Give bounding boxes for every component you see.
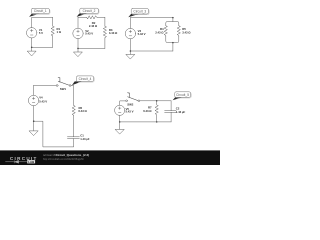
label flag Circuit_5 (173, 92, 192, 100)
wire top rail C4 (34, 84, 57, 86)
ground C3 (126, 51, 135, 59)
node R7 bottom junction (156, 121, 158, 123)
node junction C3 (130, 50, 132, 52)
label flag Circuit_3 (128, 9, 149, 18)
voltage source V2 (73, 28, 83, 38)
wire top rail C5 (140, 100, 171, 102)
wire top split C3 (172, 18, 174, 22)
wire source top to switch C5 (120, 101, 126, 105)
switch SW2 (126, 93, 140, 102)
wire C2 top lead (170, 101, 172, 111)
node bottom junction C3 (172, 42, 174, 44)
resistor R2 (horizontal) (87, 16, 97, 19)
svg-text:6.43 Ω: 6.43 Ω (78, 109, 87, 113)
resistor R5 (177, 26, 180, 37)
svg-text:2.43 Ω: 2.43 Ω (155, 30, 164, 34)
svg-text:3.43 Ω: 3.43 Ω (182, 30, 191, 34)
wire left vertical C4 (33, 85, 35, 95)
node R7 top junction (156, 100, 158, 102)
wire C2 bottom lead (170, 112, 172, 122)
svg-text:Circuit_4: Circuit_4 (79, 77, 92, 81)
node junction C1 (31, 47, 33, 49)
wire right vertical C1 (52, 18, 54, 48)
svg-text:2.43 Ω: 2.43 Ω (89, 24, 98, 28)
node junction C5 (119, 121, 121, 123)
voltage source V4 (28, 95, 38, 105)
ground C2 (74, 48, 83, 56)
svg-text:1 Ω: 1 Ω (57, 30, 62, 34)
switch SW1 (56, 77, 71, 86)
ground C4 (29, 131, 38, 136)
wire top rail left C2 (78, 16, 87, 18)
svg-text:SW1: SW1 (60, 87, 66, 91)
resistor R3 (103, 26, 106, 38)
voltage source V3 (125, 28, 135, 38)
label flag Circuit_1 (29, 8, 50, 17)
svg-text:1.43 µF: 1.43 µF (176, 110, 186, 114)
wire source bottom lead C5 (119, 115, 121, 129)
wire right vertical C2 (104, 17, 106, 48)
svg-text:6.43 Ω: 6.43 Ω (143, 109, 152, 113)
wire bottom rail C5 (120, 121, 171, 123)
node junction C2 (77, 48, 79, 50)
svg-text:5.43 V: 5.43 V (138, 32, 146, 36)
svg-text:5.43 V: 5.43 V (126, 110, 134, 114)
wire switch to corner C4 (71, 86, 74, 106)
wire source bottom lead C2 (77, 39, 79, 49)
wire bottom split C3 (166, 36, 179, 51)
wire bottom rail C2 (78, 47, 105, 49)
svg-text:rehman13 / Circuit_Questions_(: rehman13 / Circuit_Questions_(2.2) (43, 153, 89, 157)
wire top rail right C2 (97, 16, 105, 18)
resistor R1 (51, 26, 54, 36)
wire source bottom lead C4 (33, 106, 35, 131)
label flag Circuit_2 (77, 8, 99, 17)
resistor R4 (164, 26, 167, 37)
node top junction C3 (172, 17, 174, 19)
svg-text:Circuit_3: Circuit_3 (133, 10, 146, 14)
wire bottom rail C1 (32, 46, 53, 48)
svg-text:http://circuitlab.com/c6b24z65: http://circuitlab.com/c6b24z65qq29/ (43, 157, 84, 161)
wire R6 to C1 cap (73, 115, 75, 137)
svg-text:Circuit_1: Circuit_1 (34, 9, 47, 13)
svg-text:5 V: 5 V (39, 31, 43, 35)
svg-text:1.43 µF: 1.43 µF (80, 137, 90, 141)
wire source bottom lead C3 (129, 39, 131, 51)
svg-text:5.43 V: 5.43 V (39, 99, 47, 103)
wire cap bottom to left C4 (34, 121, 74, 147)
svg-text:LAB: LAB (28, 160, 34, 164)
ground C5 (115, 129, 124, 134)
svg-text:SW2: SW2 (127, 103, 133, 107)
wire left vertical C3 (129, 18, 131, 29)
voltage source V1 (27, 28, 37, 38)
wire top rail C3 (130, 17, 173, 19)
wire source bottom lead C1 (31, 38, 33, 47)
svg-text:3.43 Ω: 3.43 Ω (109, 31, 118, 35)
ground C1 (27, 47, 36, 56)
node junction C4 (33, 120, 35, 122)
wire left vertical C2 (77, 17, 79, 28)
wire bottom rail C3 (130, 50, 173, 52)
wire left vertical C1 (31, 18, 33, 28)
label flag Circuit_4 (72, 76, 94, 85)
resistor R6 (72, 106, 75, 116)
capacitor C1 (67, 137, 79, 139)
voltage source V5 (115, 105, 125, 115)
wire top rail C1 (32, 17, 53, 19)
svg-text:Circuit_2: Circuit_2 (83, 9, 96, 13)
svg-text:5.43 V: 5.43 V (85, 32, 93, 36)
svg-text:Circuit_5: Circuit_5 (176, 93, 189, 97)
capacitor C2 (165, 111, 177, 113)
resistor R7 (155, 101, 158, 122)
